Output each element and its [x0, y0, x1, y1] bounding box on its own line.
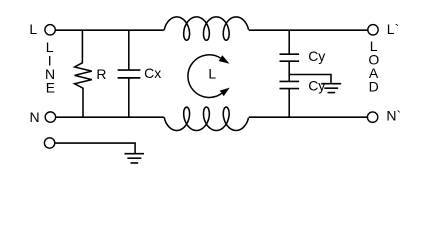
- capacitor Cx: [128, 30, 130, 117]
- svg-text:L: L: [208, 66, 216, 82]
- inductor top winding: [164, 17, 248, 40]
- chassis ground small: [321, 84, 341, 93]
- svg-text:R: R: [96, 66, 106, 82]
- ground: [125, 154, 145, 163]
- capacitor Cy lower: [288, 74, 290, 117]
- terminal L': [368, 25, 378, 35]
- svg-text:N: N: [30, 109, 40, 125]
- terminal N': [367, 112, 377, 122]
- svg-text:Cx: Cx: [144, 65, 161, 81]
- svg-text:L: L: [29, 21, 37, 37]
- wire bottom-right rail: [249, 116, 368, 118]
- terminal earth: [44, 138, 54, 148]
- resistor R: [75, 30, 92, 117]
- svg-text:E: E: [46, 79, 55, 95]
- svg-text:Cy: Cy: [308, 48, 325, 64]
- svg-text:Cy: Cy: [308, 77, 325, 93]
- wire top-right rail: [249, 29, 368, 31]
- wire to chassis ground: [289, 74, 331, 83]
- flux arrow circle: [188, 55, 222, 98]
- terminal L: [45, 25, 55, 35]
- svg-text:N`: N`: [386, 107, 401, 123]
- wire bottom-left rail: [56, 116, 164, 118]
- wire earth: [55, 143, 135, 154]
- flux arrowhead bottom: [220, 88, 230, 97]
- wire top-left rail: [55, 29, 163, 31]
- node LINE text: [45, 39, 55, 95]
- flux arrowhead top: [219, 55, 230, 64]
- inductor bottom winding: [164, 107, 248, 130]
- svg-text:D: D: [369, 79, 379, 95]
- svg-text:L`: L`: [387, 21, 399, 37]
- terminal N: [45, 112, 55, 122]
- node LOAD text: [368, 38, 379, 95]
- capacitor Cy upper: [288, 30, 290, 74]
